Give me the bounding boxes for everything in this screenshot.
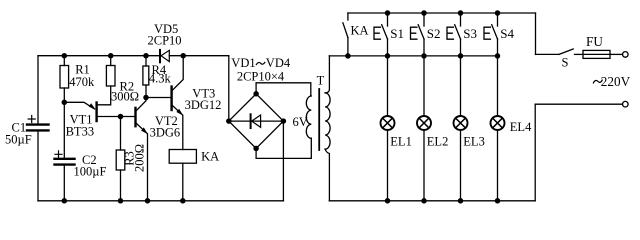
svg-text:T: T xyxy=(317,74,325,88)
svg-text:VD4: VD4 xyxy=(266,56,291,70)
svg-text:EL2: EL2 xyxy=(427,134,449,148)
svg-text:FU: FU xyxy=(586,34,603,49)
svg-text:3DG6: 3DG6 xyxy=(150,125,181,139)
svg-text:2CP10: 2CP10 xyxy=(148,34,182,48)
svg-text:4.3k: 4.3k xyxy=(149,72,172,86)
svg-text:300Ω: 300Ω xyxy=(111,90,139,104)
svg-text:EL4: EL4 xyxy=(510,120,532,134)
svg-text:220V: 220V xyxy=(601,74,631,89)
svg-text:S2: S2 xyxy=(427,26,441,41)
svg-text:50µF: 50µF xyxy=(5,133,32,147)
svg-text:2CP10×4: 2CP10×4 xyxy=(237,69,285,83)
svg-text:EL3: EL3 xyxy=(463,134,485,148)
svg-text:3DG12: 3DG12 xyxy=(185,98,222,112)
svg-text:S1: S1 xyxy=(390,26,404,41)
svg-text:VD1: VD1 xyxy=(231,56,255,70)
svg-text:EL1: EL1 xyxy=(390,134,412,148)
svg-text:S3: S3 xyxy=(463,26,477,41)
svg-text:470k: 470k xyxy=(69,75,95,89)
svg-text:200Ω: 200Ω xyxy=(132,144,146,172)
svg-text:KA: KA xyxy=(201,150,219,164)
svg-text:S4: S4 xyxy=(500,26,514,41)
svg-text:KA: KA xyxy=(351,24,369,38)
svg-text:BT33: BT33 xyxy=(66,125,94,139)
svg-text:S: S xyxy=(562,56,569,70)
svg-text:6V: 6V xyxy=(293,115,308,129)
svg-text:100µF: 100µF xyxy=(74,165,107,179)
